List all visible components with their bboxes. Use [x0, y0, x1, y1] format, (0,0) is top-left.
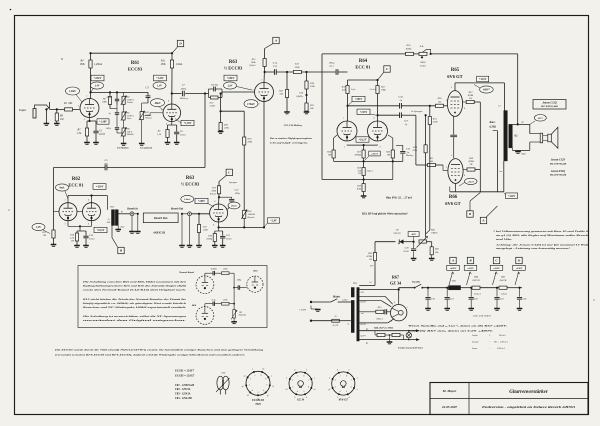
svg-text:Bei zu starken Highfrequenzspi: Bei zu starken Highfrequenzspitzen — [269, 137, 313, 140]
svg-text:bl: bl — [370, 281, 372, 284]
resistor R41 470 bias — [374, 242, 376, 253]
jensen box label — [533, 100, 566, 110]
svg-text:56k: 56k — [310, 107, 314, 110]
voltage box +410V V4 — [477, 76, 489, 82]
mini cap 0.047 — [204, 273, 206, 276]
svg-text:gn: gn — [366, 328, 368, 330]
svg-text:1: 1 — [86, 96, 87, 98]
resistor R27 470k tail — [362, 150, 365, 158]
TR3 primary bottom to tag B — [111, 225, 113, 237]
capacitor C9 50p — [104, 165, 106, 171]
PI plate supply rail — [348, 79, 378, 81]
svg-text:C19: C19 — [431, 299, 436, 301]
svg-text:4: 4 — [464, 174, 465, 177]
wire B PI out bottom — [376, 114, 378, 116]
svg-text:100/2W: 100/2W — [472, 279, 480, 282]
svg-text:MZ-50W/96,4dB: MZ-50W/96,4dB — [549, 162, 567, 165]
heater link V4 V5 — [453, 116, 455, 134]
svg-text:1,6V: 1,6V — [228, 85, 233, 88]
svg-text:TR1 - 125P1SA/B: TR1 - 125P1SA/B — [175, 384, 194, 387]
resistor R9 1M — [56, 109, 58, 113]
svg-text:C21: C21 — [450, 299, 454, 301]
svg-text:+430V: +430V — [450, 267, 457, 270]
driver plate link — [67, 196, 69, 203]
V2 plate branch — [264, 71, 266, 73]
rectifier GZ34 — [391, 305, 407, 321]
svg-text:7: 7 — [308, 380, 310, 382]
ground tone stack — [121, 143, 127, 145]
capacitor C53 — [384, 309, 386, 314]
svg-text:ECC81 = 12AT7: ECC81 = 12AT7 — [174, 370, 195, 373]
reverb transformer TR3 primary — [112, 210, 115, 226]
voltage box +16.2V — [356, 137, 369, 142]
svg-text:R61: R61 — [131, 61, 140, 66]
cap C8 and resistor R12 parallel box — [208, 89, 210, 98]
svg-text:220k: 220k — [203, 229, 209, 232]
svg-text:Die Schaltung zwischen R65 und: Die Schaltung zwischen R65 und R66, bild… — [81, 281, 187, 284]
resistor R11 100k — [171, 53, 173, 60]
heater wire bottom — [359, 339, 418, 341]
voltage box +166V V2 — [224, 75, 237, 81]
svg-text:1mA: 1mA — [351, 88, 356, 91]
svg-text:3,6mA: 3,6mA — [367, 170, 374, 173]
RCA jack reverb in — [130, 212, 134, 216]
svg-text:.1µ: .1µ — [404, 123, 408, 126]
svg-text:4AB3C1B: 4AB3C1B — [152, 232, 165, 235]
resistor R32 82k — [347, 80, 349, 86]
svg-text:k: k — [329, 378, 330, 380]
svg-text:=: = — [489, 341, 491, 344]
svg-text:8: 8 — [294, 369, 295, 371]
svg-text:150 mA: 150 mA — [497, 347, 505, 350]
svg-text:4: 4 — [306, 396, 307, 399]
svg-text:Radiogehörlautsprechern R15 un: Radiogehörlautsprechern R15 und R16 den … — [83, 284, 186, 287]
mini junction vertical — [233, 273, 235, 304]
svg-text:C20: C20 — [405, 248, 410, 250]
svg-text:* bei Vollaussteuerung gemesse: * bei Vollaussteuerung gemessen mit Bass… — [493, 230, 589, 233]
PI bias bus — [334, 160, 403, 162]
wire input — [50, 108, 80, 110]
svg-text:1W: 1W — [358, 172, 362, 175]
svg-text:820: 820 — [107, 222, 111, 224]
resistor R6 100k slope — [109, 92, 111, 96]
V5 plate bus — [455, 183, 457, 191]
capacitor C37 — [399, 112, 401, 118]
resistor R17 220k — [198, 214, 200, 225]
svg-text:sowie den Normal-Kanal (C14-R1: sowie den Normal-Kanal (C14-R15) dem Ori… — [81, 288, 187, 291]
svg-text:8Ω: 8Ω — [514, 135, 517, 138]
capacitor treble 250p — [116, 91, 118, 93]
svg-text:8: 8 — [166, 124, 167, 126]
svg-text:3: 3 — [335, 387, 336, 389]
svg-text:0,1µ: 0,1µ — [273, 62, 278, 65]
svg-text:.1µ: .1µ — [399, 99, 403, 102]
svg-text:1,9mV: 1,9mV — [69, 90, 76, 93]
svg-text:1,9mA: 1,9mA — [176, 63, 183, 66]
svg-text:R64: R64 — [359, 59, 368, 64]
svg-text:R61: R61 — [253, 270, 257, 273]
mini ground — [231, 321, 237, 323]
svg-text:2: 2 — [250, 379, 251, 381]
triode reverb driver a — [59, 203, 77, 221]
svg-text:90 mA: 90 mA — [499, 334, 506, 337]
svg-text:1,5k: 1,5k — [157, 133, 162, 136]
svg-text:100k: 100k — [102, 101, 108, 104]
svg-text:R63: R63 — [186, 176, 195, 181]
oval 176mV V2 — [244, 100, 258, 108]
svg-text:h: h — [306, 369, 307, 371]
speaker LS1 — [540, 133, 543, 143]
svg-text:56k: 56k — [280, 93, 284, 96]
svg-text:176mV: 176mV — [247, 103, 255, 106]
svg-text:Wenn Standby auf „Aus“, dann a: Wenn Standby auf „Aus“, dann an (8) R67 … — [408, 324, 508, 327]
voltage box +10.9V — [94, 227, 107, 232]
svg-text:6V6 GT: 6V6 GT — [447, 74, 462, 79]
mini resistor 220k bottom — [222, 302, 230, 305]
capacitor C32 003 — [219, 196, 232, 198]
resistor R23 56k — [305, 103, 308, 111]
mixer wire — [218, 222, 220, 227]
ground volume — [139, 143, 145, 145]
svg-text:3,3M: 3,3M — [210, 105, 216, 108]
svg-text:6: 6 — [308, 387, 309, 389]
ground heater center — [389, 335, 391, 342]
svg-text:+1,48V: +1,48V — [99, 121, 107, 124]
svg-text:R10: R10 — [144, 112, 150, 114]
svg-text:C7: C7 — [182, 84, 186, 87]
svg-text:C23: C23 — [500, 299, 505, 301]
svg-text:gr: gr — [121, 211, 123, 213]
svg-text:Fader: Fader — [419, 64, 426, 67]
svg-text:1: 1 — [343, 118, 344, 120]
screen rail — [479, 102, 481, 171]
svg-text:+185V: +185V — [198, 200, 205, 203]
svg-text:+410V: +410V — [493, 267, 500, 270]
oval 45mV recovery — [228, 202, 240, 209]
tag box A output plate — [480, 217, 486, 223]
svg-text:R63: R63 — [229, 60, 238, 65]
svg-text:k: k — [286, 378, 287, 380]
resistor R45 100k 2W — [499, 286, 507, 289]
wire to V2 grid — [221, 92, 223, 94]
svg-text:7: 7 — [351, 380, 353, 382]
svg-text:R15 nicht hörbar die Triode de: R15 nicht hörbar die Triode des Normal-K… — [83, 298, 187, 301]
ground C1 — [93, 142, 99, 144]
svg-text:1k5: 1k5 — [430, 160, 434, 163]
svg-text:R43: R43 — [434, 248, 440, 251]
ground jack — [45, 109, 47, 123]
svg-text:g2: g2 — [328, 389, 330, 391]
resistor R47 100 — [389, 334, 391, 336]
oval 1.9mA recovery — [181, 195, 194, 202]
svg-text:ECC 81: ECC 81 — [68, 183, 84, 188]
bias tap wire bl — [374, 261, 376, 286]
svg-text:4: 4 — [252, 389, 253, 392]
resistor R22b 100k — [377, 80, 379, 86]
svg-text:an g1 (5) R65, alle Regler auf: an g1 (5) R65, alle Regler auf Maximum a… — [496, 234, 589, 237]
svg-text:1: 1 — [340, 375, 341, 377]
svg-text:gn: gn — [366, 342, 368, 344]
ground speaker — [517, 149, 519, 152]
voltage box +205V — [352, 96, 365, 101]
svg-text:R46, R47 2x 100Ω: R46, R47 2x 100Ω — [374, 326, 393, 329]
ground R8 — [165, 142, 171, 144]
svg-text:I ruhe: I ruhe — [471, 334, 479, 337]
voltage box +410V OT — [506, 193, 518, 199]
svg-text:68k: 68k — [69, 102, 74, 105]
ground grid R — [51, 244, 57, 246]
svg-text:+215V: +215V — [360, 111, 368, 114]
pot R8 middle — [122, 128, 125, 136]
svg-text:g1: g1 — [267, 395, 269, 397]
svg-text:3: 3 — [451, 155, 452, 157]
triode V1b ECC83 — [163, 104, 181, 122]
capacitor C17 coupling to PI — [335, 69, 337, 75]
svg-text:außen: außen — [342, 298, 347, 301]
svg-text:Reverb: Reverb — [247, 216, 256, 219]
svg-text:+410V: +410V — [479, 78, 487, 81]
svg-text:TR2 - 125C3A: TR2 - 125C3A — [175, 388, 191, 391]
svg-text:220k: 220k — [310, 85, 316, 88]
voltage oval 23V — [534, 115, 546, 122]
svg-text:C20...C24 16/475: C20...C24 16/475 — [473, 315, 492, 318]
svg-text:6,5kΩ: 6,5kΩ — [490, 126, 497, 129]
svg-text:1,4V: 1,4V — [157, 85, 162, 88]
svg-text:1,1mA: 1,1mA — [369, 88, 376, 91]
capacitor bass 0.1 — [115, 112, 119, 114]
diode D1 — [399, 239, 403, 244]
svg-text:+1,9V: +1,9V — [270, 220, 277, 223]
resistor R34b 1M — [388, 135, 393, 138]
svg-text:10k-L: 10k-L — [127, 131, 133, 133]
svg-text:6: 6 — [168, 101, 169, 103]
resistor R52 100mA — [376, 310, 384, 313]
voltage box +410V psu — [490, 265, 503, 270]
svg-text:6: 6 — [294, 397, 295, 399]
svg-text:+142V: +142V — [156, 77, 165, 80]
5V heater wire top — [359, 289, 399, 291]
svg-text:C3: C3 — [145, 87, 149, 90]
svg-text:8: 8 — [265, 379, 266, 381]
filter cap C22 — [470, 287, 472, 289]
resistor R13 220k — [293, 70, 301, 73]
tag box C psu — [493, 272, 497, 285]
svg-text:silber: silber — [120, 227, 125, 229]
wire V1a plate to tone stack — [91, 91, 149, 93]
svg-text:50p: 50p — [104, 163, 109, 166]
ground C10 — [83, 245, 89, 247]
input jack J1 — [33, 109, 36, 119]
svg-text:Läßt (6) R67 aus, dann an C20: Läßt (6) R67 aus, dann an C20 +480V. — [406, 330, 494, 333]
resistor R15 100k — [264, 49, 266, 59]
svg-text:TR1: TR1 — [353, 282, 357, 285]
svg-text:Gitarrenverstärker: Gitarrenverstärker — [509, 390, 548, 395]
speaker return wire — [530, 141, 540, 143]
svg-text:f: f — [271, 374, 272, 377]
svg-text:2W: 2W — [469, 97, 473, 100]
svg-text:8: 8 — [213, 225, 214, 227]
svg-text:R8: R8 — [126, 129, 130, 131]
svg-text:gn: gn — [522, 122, 524, 124]
svg-text:8: 8 — [346, 375, 347, 377]
svg-text:90 … 120 mA: 90 … 120 mA — [494, 341, 508, 344]
svg-text:1M: 1M — [387, 154, 391, 157]
svg-text:Die Schaltung ist unverzichtba: Die Schaltung ist unverzichtbar, selbst … — [81, 315, 187, 318]
svg-text:.1µ: .1µ — [406, 151, 410, 154]
reverb send wire — [118, 213, 130, 215]
svg-text:1M: 1M — [43, 234, 47, 237]
svg-text:6: 6 — [374, 118, 375, 120]
tag box B psu — [467, 272, 471, 285]
svg-text:ECC83: ECC83 — [128, 67, 143, 72]
NFB top wire — [322, 53, 406, 55]
pot R2 treble — [123, 92, 125, 96]
svg-text:7025: 7025 — [255, 403, 261, 406]
svg-text:25/25: 25/25 — [226, 237, 232, 240]
svg-text:Jensen P12Q: Jensen P12Q — [551, 170, 565, 173]
filter cap C23 — [496, 287, 498, 289]
svg-text:k1: k1 — [272, 386, 274, 388]
mini cap 0.1 — [204, 304, 206, 307]
svg-text:1500-A: 1500-A — [127, 98, 134, 101]
resistor R36 1k5 grid stopper — [436, 104, 444, 107]
svg-text:45mV: 45mV — [230, 205, 237, 208]
svg-text:1M: 1M — [239, 312, 242, 314]
svg-text:a2: a2 — [244, 375, 246, 377]
triode V1a ECC83 — [80, 99, 99, 118]
svg-text:MZ-40W/98,8dB: MZ-40W/98,8dB — [549, 174, 567, 177]
svg-text:C17: C17 — [329, 65, 334, 68]
resistor R31 1k5 grid stopper bottom — [416, 164, 428, 166]
power transformer TR1 primary — [351, 288, 354, 298]
svg-text:C8 56p: C8 56p — [211, 84, 219, 87]
svg-text:100k: 100k — [381, 89, 387, 92]
signal level oval 1.9mV — [66, 87, 80, 95]
svg-text:1W: 1W — [369, 258, 373, 261]
svg-text:5V≈: 5V≈ — [361, 291, 365, 294]
svg-text:100k: 100k — [79, 63, 85, 66]
svg-text:C12: C12 — [273, 65, 278, 68]
svg-text:a2: a2 — [286, 389, 288, 391]
ground R9 — [54, 123, 60, 125]
pot R42 bias — [419, 240, 427, 243]
mini pot 1M intensity — [233, 304, 235, 310]
svg-text:A≈: A≈ — [106, 218, 110, 221]
svg-text:220k: 220k — [224, 127, 230, 130]
svg-text:2x Sprague: 2x Sprague — [411, 110, 423, 113]
svg-text:3: 3 — [357, 378, 358, 380]
grid leak R34 220k — [425, 115, 427, 145]
ground R29 — [361, 195, 367, 197]
cathode network V1a — [89, 118, 91, 122]
mains switch — [331, 299, 338, 302]
tag box A psu — [449, 272, 453, 285]
svg-text:2: 2 — [335, 380, 336, 382]
svg-text:GZ 34: GZ 34 — [390, 280, 402, 285]
voltage box +415V psu — [464, 265, 477, 270]
resistor R13d 1M grid — [52, 230, 55, 238]
svg-text:3: 3 — [65, 224, 66, 226]
svg-text:ba: ba — [500, 170, 503, 173]
svg-text:C22: C22 — [474, 299, 479, 301]
svg-text:220k: 220k — [295, 66, 301, 69]
svg-text:9mA: 9mA — [59, 187, 64, 190]
svg-text:0,047µ: 0,047µ — [296, 95, 303, 98]
pot R10 volume — [140, 112, 143, 120]
svg-text:6: 6 — [88, 200, 89, 202]
svg-text:5V≈: 5V≈ — [370, 265, 374, 268]
svg-text:ausgelegt - Leistung nur kurzz: ausgelegt - Leistung nur kurzzeitig mess… — [496, 247, 570, 250]
oval 9mA driver — [56, 184, 69, 191]
V2 cathode line down — [263, 102, 265, 229]
pilot lamp — [406, 333, 411, 338]
svg-text:8: 8 — [394, 302, 395, 304]
mini tube vibrato channel — [196, 307, 214, 325]
svg-text:C15, C16 Mallory: C15, C16 Mallory — [284, 124, 303, 127]
triode V3b ECC81 — [368, 121, 388, 141]
svg-text:Rauschen und NF-Wiedergabe 180: Rauschen und NF-Wiedergabe 180kΩ experim… — [83, 306, 187, 309]
wire jack to V3r grid — [191, 213, 209, 215]
PI grid network box — [322, 179, 364, 181]
big loop left wire — [321, 54, 323, 180]
note box frame — [78, 266, 267, 328]
resistor R46 100 — [374, 331, 376, 335]
svg-text:TR4 - 125A10B: TR4 - 125A10B — [175, 397, 192, 400]
mains earth — [310, 306, 312, 310]
svg-text:6,3V≈: 6,3V≈ — [361, 335, 367, 338]
tag box A for R15 — [273, 37, 279, 43]
svg-text:+415V: +415V — [467, 267, 474, 270]
svg-text:+230V: +230V — [516, 267, 523, 270]
svg-text:f: f — [252, 367, 253, 370]
svg-text:R62: R62 — [72, 177, 81, 182]
svg-text:1,4V: 1,4V — [95, 85, 100, 88]
svg-text:1500-A: 1500-A — [127, 114, 134, 117]
svg-text:silber: silber — [521, 154, 526, 156]
svg-text:ECC83 = 12AX7: ECC83 = 12AX7 — [174, 374, 195, 377]
tag box D top-left — [172, 47, 177, 53]
svg-text:R1: R1 — [63, 102, 68, 105]
svg-text:1M: 1M — [328, 154, 332, 157]
resistor R22 56k to ground — [286, 72, 288, 90]
voltage oval 1.4V V1a — [91, 82, 104, 89]
resistor R7 1.5k — [86, 121, 88, 128]
svg-text:820Ω: 820Ω — [406, 47, 412, 50]
svg-text:R64: R64 — [192, 304, 197, 307]
RCA jack reverb in sleeve — [134, 213, 138, 215]
voltage oval 468V — [480, 86, 494, 93]
svg-text:6V6 GT: 6V6 GT — [339, 399, 348, 402]
svg-text:25/25: 25/25 — [89, 237, 95, 240]
svg-text:R33, R34 auf gleiche Werte aus: R33, R34 auf gleiche Werte aussuchen! — [362, 213, 408, 216]
svg-text:.047µ: .047µ — [106, 127, 112, 130]
oval 1.9V driver — [32, 223, 45, 230]
svg-text:0,9mA: 0,9mA — [249, 64, 256, 67]
svg-text:unverändert dem Original entsp: unverändert dem Original entsprechen. — [83, 319, 187, 322]
svg-text:5: 5 — [446, 167, 447, 169]
PI cathode link — [346, 144, 348, 147]
pot R3 bass — [122, 112, 125, 120]
capacitor C19 first filter — [427, 287, 429, 289]
pinout 6V6 GT — [332, 372, 355, 395]
ground driver cathode R — [74, 245, 80, 247]
svg-text:+410V: +410V — [508, 195, 516, 198]
svg-text:220k: 220k — [412, 149, 418, 152]
svg-text:.003µ: .003µ — [235, 192, 241, 195]
resistor R19 470k — [243, 137, 246, 145]
capacitor C10 driver cathode — [85, 231, 87, 236]
plate rail top left — [91, 52, 173, 54]
